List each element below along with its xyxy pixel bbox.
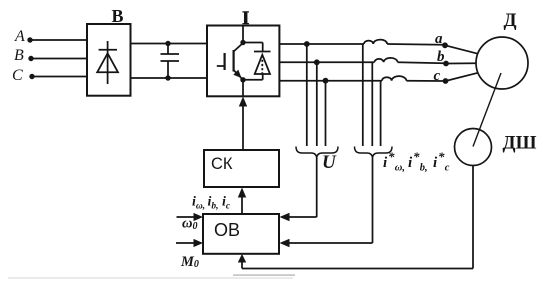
svg-text:U: U (322, 152, 337, 173)
svg-text:A: A (14, 28, 25, 45)
svg-text:C: C (12, 67, 23, 84)
svg-text:В: В (112, 6, 124, 26)
svg-text:СК: СК (211, 155, 233, 173)
svg-text:ДШ: ДШ (503, 133, 537, 154)
svg-text:b: b (437, 49, 445, 65)
svg-text:a: a (435, 31, 443, 47)
svg-text:ОВ: ОВ (214, 220, 240, 240)
svg-text:I: I (242, 8, 249, 29)
svg-text:Д: Д (504, 10, 517, 31)
svg-text:c: c (434, 68, 441, 84)
svg-text:B: B (14, 47, 24, 64)
